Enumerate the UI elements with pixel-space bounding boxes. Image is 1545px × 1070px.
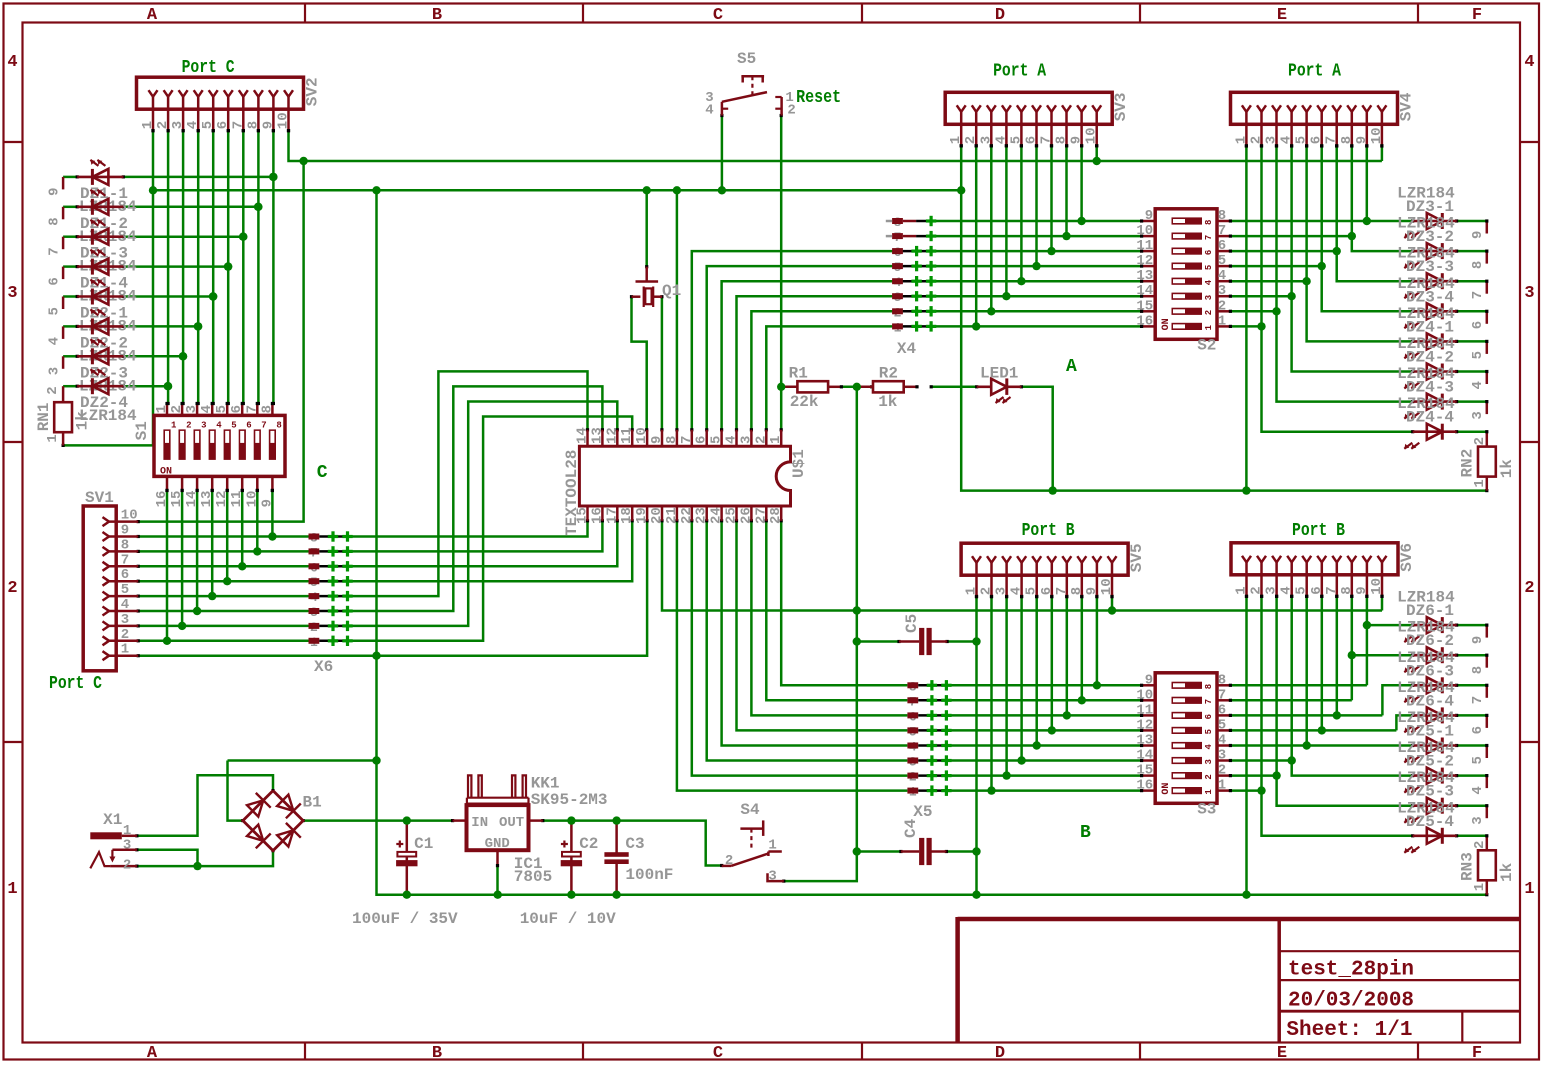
svg-text:R2: R2 <box>879 364 898 382</box>
svg-text:16: 16 <box>1136 778 1153 794</box>
svg-text:8: 8 <box>47 217 63 225</box>
svg-text:2: 2 <box>186 420 191 430</box>
svg-text:C: C <box>713 1044 723 1063</box>
svg-text:DZ6-3: DZ6-3 <box>1406 662 1454 680</box>
svg-text:3: 3 <box>47 367 63 375</box>
led DZ3-2 LZR184 <box>1397 215 1457 269</box>
svg-text:7805: 7805 <box>514 868 552 886</box>
svg-text:Port C: Port C <box>182 58 235 78</box>
svg-text:S4: S4 <box>740 801 760 819</box>
svg-text:1k: 1k <box>1498 862 1516 882</box>
led DZ1-4 LZR184 <box>77 250 137 306</box>
label Port A SV4 <box>1288 61 1341 81</box>
resistor R2 <box>855 381 918 392</box>
svg-text:6: 6 <box>1039 587 1055 595</box>
wire X1 pin2 to B1 bottom <box>135 849 274 868</box>
wire RN1 pin2 stub <box>62 386 65 402</box>
svg-text:13: 13 <box>1136 733 1153 749</box>
svg-text:4: 4 <box>185 121 201 129</box>
svg-text:DZ3-4: DZ3-4 <box>1406 288 1454 306</box>
svg-text:5: 5 <box>1470 756 1486 764</box>
label RN2 <box>1459 437 1517 488</box>
svg-text:9: 9 <box>47 187 63 195</box>
svg-text:6: 6 <box>121 567 129 583</box>
svg-text:100uF / 35V: 100uF / 35V <box>352 910 458 928</box>
led DZ6-1 LZR184 <box>1397 589 1457 643</box>
svg-text:U$1: U$1 <box>790 449 808 478</box>
wire VCC rail right <box>541 819 723 867</box>
svg-text:8: 8 <box>259 405 275 413</box>
svg-text:8: 8 <box>1470 666 1486 674</box>
connector SV4 Port A header <box>1231 92 1416 147</box>
svg-text:7: 7 <box>1218 223 1226 239</box>
svg-text:1: 1 <box>1472 883 1488 891</box>
label C zone <box>317 463 328 483</box>
led DZ5-4 LZR184 <box>1397 799 1457 853</box>
svg-text:1: 1 <box>1218 778 1226 794</box>
svg-text:6: 6 <box>694 436 710 444</box>
svg-text:2: 2 <box>1218 298 1226 314</box>
svg-text:6: 6 <box>1024 136 1040 144</box>
jumper X5 row 4 <box>907 724 951 739</box>
jumper X6 row 6 <box>309 605 353 620</box>
connector X1 power jack <box>90 832 137 868</box>
label C1 value <box>352 910 458 928</box>
svg-text:DZ4-1: DZ4-1 <box>1406 318 1454 336</box>
connector SV1 Port C <box>83 489 138 671</box>
label R2 <box>879 364 898 382</box>
svg-text:7: 7 <box>1039 136 1055 144</box>
resistor R1 <box>780 381 843 392</box>
jumper X4 row 3 <box>892 245 936 260</box>
jumper X5 row 6 <box>907 755 951 770</box>
wire SV2 pins2-9 to S1 <box>167 129 276 405</box>
svg-text:11: 11 <box>1136 702 1153 718</box>
wire C5 row <box>857 640 977 643</box>
svg-text:9: 9 <box>1145 672 1153 688</box>
svg-text:2: 2 <box>155 121 171 129</box>
title block <box>958 917 1520 1043</box>
svg-text:E: E <box>1277 1044 1287 1063</box>
svg-text:10: 10 <box>1099 578 1115 595</box>
svg-text:9: 9 <box>1145 208 1153 224</box>
svg-text:6: 6 <box>47 277 63 285</box>
svg-text:10: 10 <box>1369 127 1385 144</box>
jumper X5 row 5 <box>907 740 951 755</box>
svg-text:C: C <box>713 6 723 25</box>
svg-text:7: 7 <box>47 247 63 255</box>
svg-text:4: 4 <box>199 405 215 413</box>
label B1 <box>303 794 322 812</box>
svg-text:4: 4 <box>1470 381 1486 389</box>
label C5 <box>903 614 921 633</box>
svg-text:2: 2 <box>1249 586 1265 594</box>
svg-text:4: 4 <box>121 597 129 613</box>
svg-text:3: 3 <box>1264 136 1280 144</box>
led DZ6-3 LZR184 <box>1397 649 1457 703</box>
dip switch S3 <box>1136 672 1232 818</box>
svg-text:A: A <box>147 1044 158 1063</box>
svg-text:2: 2 <box>1472 841 1488 849</box>
svg-text:Port A: Port A <box>993 61 1046 81</box>
label X1 pins <box>123 823 131 873</box>
svg-text:ON: ON <box>160 466 172 477</box>
jumper X4 row 8 <box>892 320 936 335</box>
svg-text:RN2: RN2 <box>1459 449 1477 478</box>
svg-text:2: 2 <box>121 627 129 643</box>
svg-text:C: C <box>317 463 328 483</box>
svg-text:4: 4 <box>1279 586 1295 594</box>
label Port B SV6 <box>1292 521 1345 541</box>
wire X4 rows to S2 <box>690 221 1141 431</box>
svg-text:7: 7 <box>1470 291 1486 299</box>
svg-text:6: 6 <box>1218 238 1226 254</box>
wire LED B row8 to RN3 <box>1485 834 1488 850</box>
led DZ4-3 LZR184 <box>1397 365 1457 419</box>
svg-text:5: 5 <box>1218 253 1226 269</box>
svg-text:DZ4-4: DZ4-4 <box>1406 409 1454 427</box>
svg-text:2: 2 <box>1472 437 1488 445</box>
dip switch S2 <box>1136 208 1232 354</box>
svg-text:22: 22 <box>679 507 695 524</box>
svg-text:SV2: SV2 <box>304 77 322 106</box>
label IN OUT GND <box>471 815 524 852</box>
svg-text:10: 10 <box>244 491 260 508</box>
svg-text:8: 8 <box>1339 586 1355 594</box>
wire Q1 right to IC pin9 <box>660 295 663 431</box>
svg-text:10uF / 10V: 10uF / 10V <box>520 910 616 928</box>
svg-text:8: 8 <box>1204 220 1214 225</box>
svg-text:15: 15 <box>1136 298 1153 314</box>
svg-text:15: 15 <box>1136 763 1153 779</box>
svg-text:1: 1 <box>948 136 964 144</box>
svg-text:S5: S5 <box>737 50 756 68</box>
svg-text:2: 2 <box>1204 774 1214 779</box>
svg-text:3: 3 <box>1264 586 1280 594</box>
svg-text:5: 5 <box>231 420 236 430</box>
wire R2 junction vertical <box>782 387 857 883</box>
label Port B SV5 <box>1022 521 1075 541</box>
svg-text:12: 12 <box>214 491 230 508</box>
svg-text:3: 3 <box>978 136 994 144</box>
led LED1 <box>977 378 1022 403</box>
svg-text:1: 1 <box>768 837 776 853</box>
led DZ2-1 LZR184 <box>77 280 137 336</box>
led DZ5-1 LZR184 <box>1397 709 1457 763</box>
capacitor C2 <box>561 819 582 896</box>
svg-text:4: 4 <box>705 103 713 119</box>
svg-text:E: E <box>1277 6 1287 25</box>
svg-text:5: 5 <box>214 405 230 413</box>
svg-text:16: 16 <box>589 507 605 524</box>
svg-text:test_28pin: test_28pin <box>1288 959 1414 982</box>
svg-text:SV3: SV3 <box>1112 92 1130 121</box>
svg-text:7: 7 <box>1054 587 1070 595</box>
led DZ4-4 LZR184 <box>1397 395 1457 449</box>
svg-text:ON: ON <box>1161 783 1172 795</box>
led DZ1-2 LZR184 <box>77 190 137 246</box>
jumper X5 row 7 <box>907 770 951 785</box>
svg-text:23: 23 <box>694 507 710 524</box>
svg-text:3: 3 <box>201 420 206 430</box>
jumper X6 row 7 <box>309 620 353 635</box>
svg-text:14: 14 <box>1136 748 1153 764</box>
svg-text:22k: 22k <box>790 393 819 411</box>
label C3 <box>625 835 644 853</box>
svg-text:SV6: SV6 <box>1398 543 1416 572</box>
svg-text:8: 8 <box>276 420 281 430</box>
svg-text:13: 13 <box>1136 268 1153 284</box>
wire Q1 left to IC pin10 <box>630 295 648 431</box>
svg-text:R1: R1 <box>789 364 808 382</box>
led DZ6-4 LZR184 <box>1397 679 1457 733</box>
svg-text:9: 9 <box>260 121 276 129</box>
svg-text:DZ5-1: DZ5-1 <box>1406 723 1454 741</box>
wire S3 rows to LED group B <box>1230 595 1414 838</box>
svg-text:12: 12 <box>604 427 620 444</box>
svg-text:16: 16 <box>154 491 170 508</box>
wire VCC rail <box>302 819 455 822</box>
svg-text:7: 7 <box>230 121 246 129</box>
svg-text:DZ6-4: DZ6-4 <box>1406 692 1454 710</box>
wire SV5 pins2-9 verticals <box>990 595 1099 791</box>
wire SV3 pins2-9 to X4 rows <box>975 144 1084 326</box>
svg-text:2: 2 <box>1204 310 1214 315</box>
wire top bus VCC y161 <box>287 129 1384 161</box>
label C2 <box>579 835 598 853</box>
jumper X6 row 2 <box>309 545 353 560</box>
capacitor C4 <box>901 838 947 865</box>
svg-text:19: 19 <box>634 507 650 524</box>
svg-text:Port A: Port A <box>1288 61 1341 81</box>
svg-text:4: 4 <box>1204 279 1214 285</box>
wire LED group A cathode stubs <box>1455 219 1488 433</box>
jumper X6 row 4 <box>309 575 353 590</box>
svg-text:IN: IN <box>471 815 488 831</box>
svg-text:17: 17 <box>604 507 620 524</box>
svg-text:11: 11 <box>619 427 635 444</box>
svg-text:A: A <box>147 6 158 25</box>
wire LED group B cathode stubs <box>1455 624 1488 838</box>
svg-text:B: B <box>432 6 442 25</box>
capacitor C3 <box>604 819 628 896</box>
label KK1 <box>531 775 608 810</box>
wire GND vertical and rail <box>377 190 1489 896</box>
wire SV6 pin1 vertical <box>1245 595 1248 895</box>
wire S5 left pin down <box>720 114 723 190</box>
svg-text:3: 3 <box>184 405 200 413</box>
svg-text:1: 1 <box>1204 789 1214 795</box>
svg-text:KK1: KK1 <box>531 775 560 793</box>
wire SV3 pin1 to bus A <box>960 144 1489 492</box>
svg-text:4: 4 <box>1218 268 1226 284</box>
jumper X4 row 5 <box>892 275 936 290</box>
label LED1 <box>980 364 1018 382</box>
svg-text:9: 9 <box>1470 231 1486 239</box>
svg-text:A: A <box>1066 357 1077 377</box>
label 22k <box>790 393 819 411</box>
svg-text:DZ5-2: DZ5-2 <box>1406 753 1454 771</box>
svg-text:B: B <box>1080 823 1091 843</box>
svg-text:9: 9 <box>1470 636 1486 644</box>
svg-text:3: 3 <box>1204 759 1214 764</box>
svg-text:1: 1 <box>154 405 170 413</box>
svg-text:5: 5 <box>1204 729 1214 734</box>
label A zone <box>1066 357 1077 377</box>
svg-text:7: 7 <box>1324 586 1340 594</box>
svg-text:2: 2 <box>725 853 733 869</box>
wire bus B <box>660 519 1382 610</box>
switch S4 <box>722 801 784 884</box>
svg-text:5: 5 <box>1470 351 1486 359</box>
svg-text:3: 3 <box>1204 295 1214 300</box>
svg-text:F: F <box>1472 1044 1482 1063</box>
led DZ4-1 LZR184 <box>1397 305 1457 359</box>
svg-text:5: 5 <box>1024 587 1040 595</box>
jumper X4 row 7 <box>892 305 936 320</box>
svg-text:RN1: RN1 <box>35 402 53 431</box>
svg-text:3: 3 <box>1218 748 1226 764</box>
bridge rectifier B1 <box>243 791 303 851</box>
svg-text:9: 9 <box>1354 586 1370 594</box>
svg-text:13: 13 <box>199 491 215 508</box>
jumper X4 row 6 <box>892 290 936 305</box>
svg-text:7: 7 <box>121 552 129 568</box>
wire SV4 pin9 vertical <box>1365 144 1368 221</box>
svg-text:1: 1 <box>45 434 61 442</box>
svg-text:Q1: Q1 <box>662 282 681 300</box>
svg-text:5: 5 <box>1204 265 1214 270</box>
svg-text:8: 8 <box>121 537 129 553</box>
svg-text:6: 6 <box>215 121 231 129</box>
led DZ2-3 LZR184 <box>77 339 137 395</box>
wire SV5 pin10 <box>1110 595 1113 611</box>
svg-text:3: 3 <box>738 436 754 444</box>
led DZ3-4 LZR184 <box>1397 275 1457 329</box>
svg-text:1k: 1k <box>74 411 92 431</box>
jumper X5 row 1 <box>907 679 951 694</box>
svg-text:10: 10 <box>276 112 292 129</box>
svg-text:4: 4 <box>1279 136 1295 144</box>
svg-text:Sheet: 1/1: Sheet: 1/1 <box>1286 1019 1412 1042</box>
svg-text:X1: X1 <box>103 811 122 829</box>
svg-text:1: 1 <box>1218 313 1226 329</box>
svg-text:1: 1 <box>7 880 17 899</box>
svg-text:6: 6 <box>1309 136 1325 144</box>
svg-text:1k: 1k <box>878 393 898 411</box>
svg-text:3: 3 <box>1470 816 1486 824</box>
jumper X6 row 5 <box>309 590 353 605</box>
svg-text:3: 3 <box>121 612 129 628</box>
svg-text:C1: C1 <box>414 835 433 853</box>
svg-text:2: 2 <box>963 136 979 144</box>
label X4 <box>897 340 917 358</box>
svg-text:DZ6-1: DZ6-1 <box>1406 602 1454 620</box>
wire B1 left elbow <box>228 761 245 823</box>
svg-text:1k: 1k <box>1498 459 1516 479</box>
wire LED A row8 to RN2 <box>1485 430 1488 447</box>
led DZ3-1 LZR184 <box>1397 185 1457 239</box>
svg-text:2: 2 <box>169 405 185 413</box>
svg-text:4: 4 <box>216 420 222 430</box>
svg-text:6: 6 <box>1204 714 1214 719</box>
label IC1 7805 <box>514 855 552 886</box>
svg-text:X5: X5 <box>913 803 932 821</box>
svg-text:C2: C2 <box>579 835 598 853</box>
svg-text:1: 1 <box>1472 479 1488 487</box>
wire SV5 pin1 vertical <box>975 595 978 895</box>
svg-text:10: 10 <box>634 427 650 444</box>
svg-text:RN3: RN3 <box>1459 852 1477 881</box>
svg-text:2: 2 <box>753 436 769 444</box>
svg-text:16: 16 <box>1136 313 1153 329</box>
svg-text:4: 4 <box>1218 733 1226 749</box>
svg-text:2: 2 <box>1218 763 1226 779</box>
svg-text:7: 7 <box>261 420 266 430</box>
svg-text:3: 3 <box>1470 411 1486 419</box>
svg-text:1: 1 <box>964 587 980 595</box>
svg-text:9: 9 <box>121 523 129 539</box>
svg-text:SV4: SV4 <box>1398 92 1416 121</box>
svg-text:10: 10 <box>121 508 138 524</box>
svg-text:D: D <box>995 1044 1005 1063</box>
svg-text:2: 2 <box>979 587 995 595</box>
svg-text:5: 5 <box>200 121 216 129</box>
svg-text:1: 1 <box>123 823 131 839</box>
svg-text:3: 3 <box>170 121 186 129</box>
svg-text:7: 7 <box>679 436 695 444</box>
svg-text:9: 9 <box>259 499 275 507</box>
svg-text:21: 21 <box>664 507 680 524</box>
svg-text:11: 11 <box>229 491 245 508</box>
svg-text:Port B: Port B <box>1292 521 1345 541</box>
svg-text:4: 4 <box>1470 786 1486 794</box>
svg-text:7: 7 <box>1204 235 1214 240</box>
svg-text:ON: ON <box>1161 318 1172 330</box>
svg-text:14: 14 <box>1136 283 1153 299</box>
svg-text:6: 6 <box>1470 321 1486 329</box>
wire left LED rows <box>47 175 274 388</box>
wire IC to X5 rows to S3 <box>675 519 1141 790</box>
svg-text:4: 4 <box>47 337 63 345</box>
connector SV5 Port B header <box>961 543 1146 598</box>
svg-text:8: 8 <box>1339 136 1355 144</box>
led DZ5-3 LZR184 <box>1397 769 1457 823</box>
led DZ2-4 LZR184 <box>77 369 137 425</box>
svg-text:5: 5 <box>1008 136 1024 144</box>
svg-text:9: 9 <box>1354 136 1370 144</box>
svg-text:7: 7 <box>1324 136 1340 144</box>
svg-text:3: 3 <box>994 587 1010 595</box>
svg-text:10: 10 <box>1369 578 1385 595</box>
svg-text:6: 6 <box>1218 702 1226 718</box>
svg-text:X6: X6 <box>314 658 333 676</box>
jumper X4 row 4 <box>892 260 936 275</box>
wire SV4 pin1 vertical <box>1245 144 1248 490</box>
wire SV2 pin1 to RN1 <box>62 129 155 447</box>
svg-text:7: 7 <box>1218 687 1226 703</box>
connector SV6 Port B header <box>1231 543 1416 598</box>
svg-text:18: 18 <box>619 507 635 524</box>
svg-text:8: 8 <box>1054 136 1070 144</box>
crystal Q1 <box>632 267 682 307</box>
svg-text:8: 8 <box>245 121 261 129</box>
resistor network RN2 <box>1478 447 1496 491</box>
ic IC1 7805 <box>453 805 543 895</box>
svg-text:DZ3-3: DZ3-3 <box>1406 258 1454 276</box>
led DZ1-1 LZR184 <box>77 160 137 216</box>
svg-text:C3: C3 <box>625 835 644 853</box>
